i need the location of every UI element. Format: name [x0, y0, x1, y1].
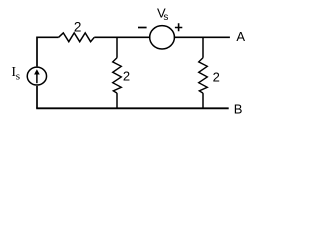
svg-text:2: 2	[213, 70, 220, 85]
resistor R1 (top, 2 ohm)	[59, 33, 95, 42]
current source Is circle	[27, 67, 46, 85]
resistor R3 (right, 2 ohm)	[199, 58, 208, 93]
svg-text:B: B	[234, 102, 243, 117]
wire middle vertical lower stub	[116, 93, 118, 108]
plus sign of Vs	[175, 23, 182, 31]
svg-text:2: 2	[74, 20, 82, 35]
wire left vertical lower (Is to bottom)	[36, 86, 38, 108]
wire from R1 to voltage source	[94, 36, 150, 38]
resistor R2 (middle, 2 ohm)	[113, 58, 122, 93]
wire right vertical upper stub	[202, 37, 204, 58]
voltage source Vs circle	[150, 26, 175, 49]
wire middle vertical upper stub	[116, 37, 118, 58]
svg-text:2: 2	[123, 69, 130, 84]
svg-text:A: A	[236, 29, 245, 44]
svg-text:s: s	[163, 12, 168, 23]
wire bottom horizontal	[36, 107, 229, 109]
svg-text:s: s	[16, 70, 20, 82]
wire top-left horizontal segment	[37, 36, 59, 38]
current source Is arrow	[34, 69, 40, 83]
wire right vertical lower stub	[202, 93, 204, 108]
wire left vertical upper (to Is)	[36, 37, 38, 67]
minus sign of Vs	[138, 27, 147, 29]
wire from Vs to node A	[174, 36, 230, 38]
